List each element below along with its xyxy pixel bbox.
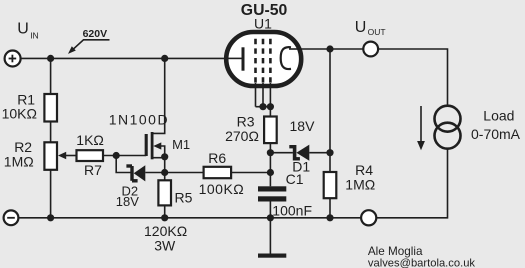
wire R2 bottom lead [50,170,52,218]
wire load bottom to rail [376,149,448,218]
node C1/rail junction [267,214,274,221]
svg-text:Ale Moglia: Ale Moglia [368,245,423,258]
svg-text:10KΩ: 10KΩ [2,106,37,122]
svg-text:1MΩ: 1MΩ [4,153,34,169]
wire gate node down to D2 [116,156,130,173]
node R3/D1 junction [267,149,274,156]
svg-text:3W: 3W [154,237,176,253]
wire bottom rail [18,217,361,219]
svg-text:IN: IN [30,30,39,40]
node M1 source junction [161,153,168,160]
node D1/R4 junction [326,149,333,156]
svg-text:R5: R5 [175,189,193,205]
resistor R6 [204,167,232,178]
node A junction (top rail / R1) [47,55,54,62]
svg-text:0-70mA: 0-70mA [471,126,521,142]
wire R4 branch vertical [329,49,331,172]
diode D1 (zener, 18V) [270,145,330,161]
svg-text:Load: Load [483,108,514,124]
svg-text:1N100D: 1N100D [109,112,169,128]
node R2/rail junction [47,214,54,221]
wire R1-R2 [50,122,52,143]
node gate junction [113,152,120,159]
resistor R4 [324,172,337,198]
terminal + (Uin) [5,51,21,67]
svg-text:100KΩ: 100KΩ [199,181,245,197]
svg-text:100nF: 100nF [272,203,312,219]
svg-text:18V: 18V [116,194,139,209]
node source/R6/D2 junction [161,169,168,176]
node M1 drain / top rail junction [161,55,168,62]
terminal Uout [363,42,378,57]
wire R5 bottom lead [164,205,166,217]
svg-text:620V: 620V [83,28,108,40]
wire Uout to load corner [378,49,447,106]
wire R1 top lead [50,58,52,94]
wire anode rail to Uout [301,48,363,50]
svg-text:1KΩ: 1KΩ [76,132,104,148]
svg-text:M1: M1 [172,137,190,152]
node R4/rail junction [326,214,333,221]
svg-text:270Ω: 270Ω [225,128,259,144]
wire source node to R5 [164,157,166,181]
wire R6 to C1 node [231,172,270,174]
node grid junctions [259,103,266,110]
svg-text:U1: U1 [254,16,272,32]
terminal bottom-right [361,210,376,225]
svg-text:OUT: OUT [368,27,386,37]
svg-text:R7: R7 [84,162,102,178]
svg-text:C1: C1 [286,171,304,187]
wire top-left rail (Uin to cathode) [20,57,242,59]
load current arrow [420,106,422,142]
svg-text:U: U [355,19,367,36]
terminal - (bottom left) [4,210,19,225]
node anode/R4 branch junction [326,45,333,52]
diode D2 (zener, 18V) [126,164,164,182]
wire R4 bottom lead [329,198,331,218]
svg-text:valves@bartola.co.uk: valves@bartola.co.uk [368,258,476,268]
wire source node to R6 [165,172,204,174]
capacitor C1 [258,186,286,191]
node R6/C1 junction [267,169,274,176]
transistor M1 (NMOS) [146,58,165,159]
wiper arrow of R2 [65,155,77,157]
tube U1 GU-50 [226,32,301,86]
resistor R3 [264,117,277,144]
resistor R5 [158,180,171,205]
load current source [435,106,461,132]
svg-text:U: U [17,20,29,37]
resistor R1 [44,94,57,122]
svg-text:1MΩ: 1MΩ [345,176,375,192]
wire R3 bottom to C1 [269,143,271,186]
node R5/rail junction [161,214,168,221]
svg-text:R6: R6 [208,150,226,166]
wire grid leads [256,83,271,117]
wire R7 to gate node [103,155,146,157]
svg-text:18V: 18V [290,118,316,134]
wire C1 bottom lead [269,202,271,218]
resistor R7 [77,150,104,161]
ground [269,218,271,254]
resistor R2 (potentiometer) [44,142,57,170]
